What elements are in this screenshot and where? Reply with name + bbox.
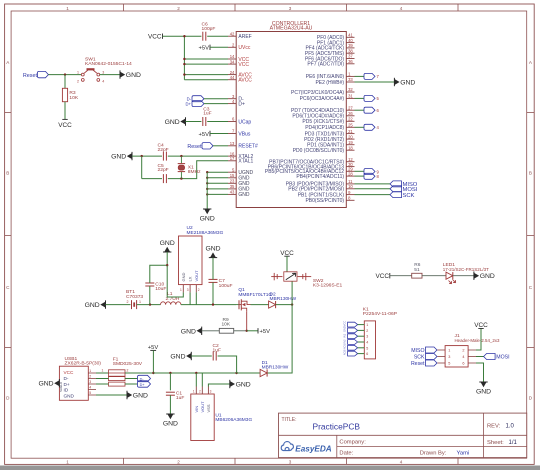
svg-text:34: 34 (230, 59, 235, 64)
net flag VCC at K1 pin 1 (348, 322, 358, 327)
wire to VCC pin 14 (184, 58, 228, 60)
svg-text:VOUT: VOUT (200, 401, 205, 413)
svg-text:GND: GND (205, 246, 220, 253)
svg-text:2: 2 (198, 288, 200, 292)
ground flag GND at LED1 (473, 272, 475, 280)
svg-text:GND: GND (200, 215, 215, 222)
svg-text:28: 28 (348, 171, 353, 176)
power flag VCC at J1 pin2 (476, 329, 481, 351)
svg-text:D+: D+ (186, 101, 192, 106)
svg-text:D-: D- (64, 376, 69, 381)
svg-text:GND: GND (400, 80, 415, 87)
power flag +5V at gate (247, 330, 258, 332)
svg-text:NO2: NO2 (342, 349, 346, 355)
svg-text:1uF: 1uF (203, 111, 211, 117)
svg-text:4: 4 (400, 459, 403, 464)
net flag SCK (390, 192, 402, 198)
ground GND below C1 (166, 413, 174, 415)
svg-text:UCap: UCap (238, 119, 251, 125)
pin 22 PD5 (XCK1/CTS#) (right) (346, 120, 354, 122)
pin 30 PB6(PCINT6/OC1B/OC4B/ADC13 (right) (346, 166, 354, 168)
pin stubs U2 (182, 285, 184, 293)
svg-text:UVcc: UVcc (238, 45, 250, 51)
svg-text:31: 31 (348, 94, 353, 99)
wire F1 to +5V rail (125, 372, 153, 374)
svg-text:MB6206A36M3G: MB6206A36M3G (215, 417, 252, 423)
svg-text:GND: GND (236, 382, 251, 389)
wire BT1 to L1 (137, 304, 161, 306)
U1 pin stubs (195, 387, 197, 395)
svg-text:10uF: 10uF (155, 286, 166, 292)
title block frame (279, 413, 527, 458)
svg-text:VBus: VBus (238, 131, 250, 137)
wire left cap leg vertical (141, 156, 143, 179)
svg-text:MISO: MISO (411, 348, 424, 354)
wire VOUT to rail (195, 292, 197, 304)
svg-text:VCC: VCC (148, 34, 162, 41)
svg-text:D+: D+ (238, 101, 245, 107)
svg-text:1: 1 (66, 6, 69, 11)
svg-text:1: 1 (180, 288, 182, 292)
svg-text:GND: GND (160, 240, 175, 247)
svg-text:VCC: VCC (238, 62, 249, 68)
svg-text:40: 40 (348, 38, 353, 43)
wire VSS to GND (208, 384, 229, 387)
svg-text:PC6(OC3A/OC4A#): PC6(OC3A/OC4A#) (300, 96, 345, 102)
svg-text:4: 4 (89, 386, 91, 390)
svg-text:GND: GND (181, 273, 186, 282)
wire C4 to XTAL2 pin (168, 155, 228, 157)
wire LX to rail (189, 292, 191, 304)
wire SW1 to GND (100, 74, 120, 76)
svg-text:1: 1 (89, 369, 91, 373)
svg-text:IN1: IN1 (342, 333, 346, 338)
svg-text:42: 42 (230, 31, 235, 36)
svg-text:VCC: VCC (474, 322, 488, 329)
USB1 pin stubs (88, 372, 96, 374)
svg-text:GND: GND (181, 328, 196, 335)
ground flag GND at C3 (185, 117, 187, 125)
svg-text:10: 10 (348, 184, 353, 189)
ground flag GND above C10 (163, 251, 171, 253)
wire Reset to SW1 (48, 74, 81, 76)
svg-text:SCK: SCK (403, 193, 415, 199)
wire C7 to rail (212, 282, 214, 304)
svg-text:IN2: IN2 (342, 339, 346, 344)
wire J1 pin6 to GND (476, 363, 484, 382)
svg-text:GND: GND (133, 393, 148, 400)
svg-text:1: 1 (448, 349, 450, 353)
net flag MOSI at J1 pin4 (476, 356, 484, 358)
pin 31 PC6(OC3A/OC4A#) (right) (346, 97, 354, 99)
svg-text:PF7 (ADC7/TDI): PF7 (ADC7/TDI) (307, 62, 344, 68)
wire to AVCC pin 24 (184, 74, 228, 76)
net port 4 (364, 124, 375, 130)
capacitor C7 100uF (209, 278, 218, 280)
svg-text:2: 2 (177, 6, 180, 11)
ground GND below J1 (479, 381, 487, 383)
svg-text:+5V: +5V (199, 132, 210, 138)
pin 39 PF4 (ADC4/TCK) (right) (346, 47, 354, 49)
ground flag GND at PE2 (393, 78, 395, 86)
svg-text:1: 1 (102, 369, 104, 373)
svg-text:+5V: +5V (199, 46, 210, 52)
svg-text:41: 41 (348, 33, 353, 38)
pin 1 PE6 (INT.6/AIN0) (right) (346, 75, 354, 77)
svg-text:43: 43 (230, 190, 235, 195)
svg-text:VCC: VCC (64, 370, 75, 375)
wire PE2 to GND (355, 81, 395, 83)
wire to AVCC pin 44 (184, 79, 228, 81)
pin 4 D+ (left) (228, 103, 236, 105)
svg-text:3: 3 (89, 380, 91, 384)
net port 7 (364, 73, 375, 79)
wire to C5 (142, 178, 162, 180)
pin 15 GND (left) (228, 177, 236, 179)
svg-text:GND: GND (111, 154, 126, 161)
svg-text:Reset: Reset (23, 73, 38, 79)
svg-text:K3-1296S-E1: K3-1296S-E1 (313, 283, 343, 289)
pin 35 GND (left) (228, 188, 236, 190)
svg-text:6: 6 (462, 362, 464, 366)
svg-text:19: 19 (348, 140, 353, 145)
net flag GND at K1 pin 2 (348, 328, 358, 333)
svg-text:1uF: 1uF (213, 348, 221, 354)
net flag D+ at USB (125, 383, 138, 385)
pin 10 PB2 (PDI/PCINT2/MOSI) (right) (346, 188, 354, 190)
capacitor C4 22pF (162, 152, 164, 161)
wire Q1 gate to +5V node (246, 312, 248, 331)
wire LED1 to GND (453, 275, 474, 277)
svg-text:21: 21 (348, 129, 353, 134)
svg-text:PD0 (OC0B/SCL/INT0): PD0 (OC0B/SCL/INT0) (293, 148, 345, 154)
wire +5V stem (152, 350, 154, 373)
svg-text:VCC: VCC (58, 122, 72, 129)
pin 21 PD3 (TXD1/INT3) (right) (346, 133, 354, 135)
capacitor C10 10uF (145, 282, 154, 284)
wire UGND/GND pins bus (207, 171, 228, 173)
svg-text:22: 22 (348, 117, 353, 122)
pin 7 VBus (left) (228, 133, 236, 135)
svg-text:5: 5 (448, 362, 450, 366)
net port 5 (364, 95, 375, 101)
svg-text:REV:: REV: (487, 424, 501, 430)
wire VIN to rail (195, 373, 197, 387)
pin 17 XTAL1 (left) (228, 160, 236, 162)
svg-text:GND: GND (85, 302, 100, 309)
wire PB3 to MISO (355, 183, 391, 185)
net port 6 (364, 107, 375, 113)
svg-text:GND: GND (342, 326, 346, 332)
svg-text:1/1: 1/1 (509, 440, 518, 446)
crystal X1 8MHz (180, 156, 182, 163)
svg-text:Reset: Reset (411, 361, 425, 367)
pin 16 XTAL2 (left) (228, 155, 236, 157)
pin 18 PD0 (OC0B/SCL/INT0) (right) (346, 149, 354, 151)
capacitor C5 22pF (162, 174, 164, 183)
wire PB2 to MOSI (355, 188, 391, 190)
svg-text:Company:: Company: (339, 439, 366, 445)
net flag NO1 at K1 pin 5 (348, 345, 358, 350)
pin 9 PB1 (PCINT1/SCLK) (right) (346, 194, 354, 196)
svg-text:33: 33 (348, 77, 353, 82)
net flag IN1 at K1 pin 3 (348, 334, 358, 339)
svg-text:2: 2 (127, 369, 129, 373)
pin 42 AREF (left) (228, 35, 236, 37)
pin 29 PB5(PCINT5/OC1A/OC4B#/ADC12 (right) (346, 170, 354, 172)
svg-text:22pF: 22pF (158, 167, 169, 173)
net flag IN2 at K1 pin 4 (348, 340, 358, 345)
pin 26 PD6(T1/OC4D#/ADC9) (right) (346, 115, 354, 117)
wire C3 to UCap pin (207, 121, 228, 123)
svg-text:VIN: VIN (194, 406, 199, 413)
net flag NO2 at K1 pin 6 (348, 351, 358, 356)
net flag MOSI (390, 186, 402, 192)
svg-text:VCC: VCC (342, 321, 346, 327)
wire Q1 drain to D2 (251, 304, 269, 306)
svg-text:Reset: Reset (187, 144, 202, 150)
svg-text:TITLE:: TITLE: (282, 417, 297, 423)
svg-text:37: 37 (348, 54, 353, 59)
svg-text:MMBF170LT1G: MMBF170LT1G (238, 292, 272, 298)
wire PE6 to port 7 (355, 75, 365, 77)
wire GND to C2 (191, 355, 212, 357)
pin 33 PE2 (HWB#) (right) (346, 81, 354, 83)
svg-text:VSS: VSS (206, 404, 211, 412)
svg-text:51: 51 (414, 267, 420, 273)
pin 12 PB7(PCINT7/OC0A/OC1C/RTS#) (right) (346, 161, 354, 163)
pin 24 AVCC (left) (228, 74, 236, 76)
svg-text:22pF: 22pF (158, 147, 169, 153)
ground flag GND (crystal net) (131, 152, 133, 160)
pin 19 PD1 (SDA/INT1) (right) (346, 144, 354, 146)
svg-text:36: 36 (348, 59, 353, 64)
svg-text:27: 27 (348, 105, 353, 110)
svg-text:GND: GND (165, 119, 180, 126)
capacitor C6 100pF (202, 32, 204, 41)
net flag MISO (390, 181, 402, 187)
svg-text:35: 35 (230, 184, 235, 189)
capacitor C2 1uF (212, 352, 214, 361)
svg-text:B: B (6, 171, 9, 176)
pin 43 GND (left) (228, 193, 236, 195)
pin 5 UGND (left) (228, 171, 236, 173)
svg-text:PB0(SS/PCINT0): PB0(SS/PCINT0) (305, 198, 344, 204)
wire L1 to U2/rail (181, 304, 236, 306)
wire VCC to C6 (163, 35, 202, 37)
pin 8 PB0(SS/PCINT0) (right) (346, 199, 354, 201)
ground flag GND at USB shield (58, 379, 60, 387)
svg-text:ZX62R-B-5P(30): ZX62R-B-5P(30) (65, 360, 102, 366)
svg-text:D+: D+ (140, 383, 146, 387)
resistor R3 10K (64, 75, 66, 89)
svg-text:1: 1 (193, 390, 195, 394)
svg-text:Yami: Yami (457, 451, 470, 457)
svg-text:1.0: 1.0 (506, 424, 515, 430)
svg-text:P2254V-11-06P: P2254V-11-06P (363, 311, 397, 317)
svg-text:+5V: +5V (148, 345, 159, 351)
EasyEDA logo (281, 442, 293, 451)
svg-text:3: 3 (448, 355, 450, 359)
wire GND to C4 (132, 155, 162, 157)
svg-text:NO1: NO1 (342, 344, 346, 350)
wire GND to C3 (186, 121, 202, 123)
wire C2 to rail (218, 356, 237, 373)
svg-text:1: 1 (77, 71, 79, 75)
svg-text:100uF: 100uF (219, 283, 233, 289)
wire GND to BT1 (106, 304, 131, 306)
svg-text:10K: 10K (222, 322, 231, 328)
svg-text:GND: GND (163, 420, 178, 427)
ground flag GND above C7 (209, 257, 217, 259)
svg-text:3: 3 (187, 288, 189, 292)
pin 41 PF0 (ADC0) (right) (346, 36, 354, 38)
svg-text:2: 2 (89, 375, 91, 379)
svg-text:GND: GND (38, 381, 53, 388)
svg-text:GND: GND (238, 192, 250, 198)
wire VCC to SW2 (286, 256, 288, 271)
wire to VCC pin 34 (184, 63, 228, 65)
svg-text:2: 2 (462, 349, 464, 353)
ground flag GND at VSS (229, 380, 231, 388)
wire PC6 to port 5 (355, 97, 365, 99)
pin 6 UCap (left) (228, 121, 236, 123)
svg-text:3: 3 (366, 335, 368, 339)
power flag VCC below R3 (62, 118, 67, 120)
pin 34 VCC (left) (228, 63, 236, 65)
wire C10 top (150, 265, 167, 283)
wire VOUT to rail (201, 373, 203, 387)
svg-text:8MHz: 8MHz (188, 169, 201, 175)
svg-text:GND: GND (64, 394, 75, 399)
svg-text:3: 3 (102, 71, 104, 75)
wire PD4 to port 4 (355, 126, 365, 128)
pin 25 PD4(ICP1/ADC8) (right) (346, 126, 354, 128)
svg-text:25: 25 (348, 123, 353, 128)
wire VCC rail vertical (183, 36, 185, 79)
net port 9 (364, 169, 375, 175)
wire USB GND (96, 394, 127, 396)
svg-text:AREF: AREF (238, 34, 251, 40)
svg-text:MOSI: MOSI (496, 355, 509, 361)
wire C1 to GND (169, 395, 171, 414)
svg-text:10K: 10K (69, 95, 78, 101)
svg-text:20: 20 (348, 134, 353, 139)
svg-text:+5V: +5V (260, 329, 271, 335)
svg-text:4: 4 (102, 79, 104, 83)
pin 3 D- (left) (228, 98, 236, 100)
svg-text:17: 17 (230, 156, 235, 161)
ground flag GND at battery (105, 300, 107, 308)
wire C6 to AREF pin (207, 35, 228, 37)
svg-text:2: 2 (127, 300, 129, 304)
svg-text:Sheet:: Sheet: (487, 440, 504, 446)
svg-text:4: 4 (400, 6, 403, 11)
svg-text:C70373: C70373 (126, 294, 143, 300)
wire SW2 to D2 node (291, 282, 293, 305)
svg-text:B: B (529, 171, 532, 176)
svg-text:1uF: 1uF (176, 395, 184, 401)
svg-text:18: 18 (348, 145, 353, 150)
svg-text:17-21/S2C-FR1S2L/3T: 17-21/S2C-FR1S2L/3T (443, 267, 489, 272)
svg-text:3: 3 (289, 459, 292, 464)
svg-text:SMD025-30V: SMD025-30V (113, 361, 143, 367)
svg-text:1: 1 (66, 459, 69, 464)
wire SW2 node down to D1 rail (267, 305, 292, 373)
pin 27 PD7 (T0/OC4D/ADC10) (right) (346, 109, 354, 111)
pin 32 PC7(ICP3/CLK0/OC4A) (right) (346, 91, 354, 93)
svg-text:2: 2 (366, 329, 368, 333)
pin 37 PF6 (ADC6/TDO) (right) (346, 58, 354, 60)
wire PD7 to port 6 (355, 109, 365, 111)
wire C10 bottom to rail (149, 286, 151, 305)
svg-text:Header-Male-2.54_2x3: Header-Male-2.54_2x3 (455, 338, 500, 343)
net flag D- at USB (125, 378, 138, 380)
resistor R2 22 (D+ series) (109, 382, 126, 386)
svg-text:VOUT: VOUT (194, 270, 199, 282)
wire PB1 to SCK (355, 194, 391, 196)
svg-text:RESET#: RESET# (238, 144, 258, 150)
svg-text:15: 15 (230, 173, 235, 178)
capacitor C3 1uF (202, 117, 204, 126)
svg-text:3: 3 (289, 6, 292, 11)
svg-text:39: 39 (348, 43, 353, 48)
ground flag GND right of SW1 (119, 70, 121, 78)
svg-text:PD4(ICP1/ADC8): PD4(ICP1/ADC8) (305, 125, 344, 131)
pin 14 VCC (left) (228, 58, 236, 60)
svg-text:2: 2 (177, 459, 180, 464)
svg-text:3: 3 (210, 390, 212, 394)
svg-text:38: 38 (348, 48, 353, 53)
svg-text:4: 4 (462, 355, 464, 359)
pin 2 UVcc (left) (228, 46, 236, 48)
pin 20 PD2 (RXD1/INT2) (right) (346, 138, 354, 140)
svg-text:GND: GND (480, 273, 495, 280)
svg-text:LX: LX (187, 276, 192, 281)
svg-text:EasyEDA: EasyEDA (295, 444, 331, 453)
wire C5 to XTAL1 jog (168, 161, 228, 179)
svg-text:MBR130HW: MBR130HW (262, 364, 289, 370)
svg-text:PC7(ICP3/CLK0/OC4A): PC7(ICP3/CLK0/OC4A) (291, 90, 344, 96)
pin 36 PF7 (ADC7/TDI) (right) (346, 63, 354, 65)
svg-text:SCK: SCK (414, 355, 425, 361)
pin 28 PB4(PCINT4/ADC11) (right) (346, 175, 354, 177)
ground GND below MCU (203, 208, 211, 210)
svg-text:6: 6 (366, 352, 368, 356)
pin 13 RESET# (left) (228, 145, 236, 147)
svg-text:5: 5 (89, 391, 91, 395)
wire PB5 to port 9 (355, 170, 365, 172)
ground flag GND right of USB1 (126, 391, 128, 399)
pin 23 GND (left) (228, 182, 236, 184)
svg-text:GND: GND (126, 72, 141, 79)
resistor R1 22 (D- series) (109, 377, 126, 381)
svg-text:Drawn By:: Drawn By: (420, 451, 447, 457)
svg-text:XTAL1: XTAL1 (238, 159, 253, 165)
svg-text:ME2188A36M3G: ME2188A36M3G (187, 230, 224, 236)
svg-text:1: 1 (366, 323, 368, 327)
svg-text:100pF: 100pF (202, 26, 216, 32)
svg-text:D+: D+ (64, 382, 70, 387)
pin 11 PB3 (PDO/PCINT3/MISO) (right) (346, 183, 354, 185)
svg-text:ATMEGA32U4-AU: ATMEGA32U4-AU (270, 25, 313, 31)
pin 40 PF1 (ADC1) (right) (346, 42, 354, 44)
svg-text:GND: GND (476, 388, 491, 395)
wire GND to U2 GND pin (167, 265, 183, 297)
svg-text:32: 32 (348, 87, 353, 92)
wire PB4 to port 8 (355, 175, 365, 177)
svg-text:KAN0642-0155C1-14: KAN0642-0155C1-14 (85, 61, 132, 67)
